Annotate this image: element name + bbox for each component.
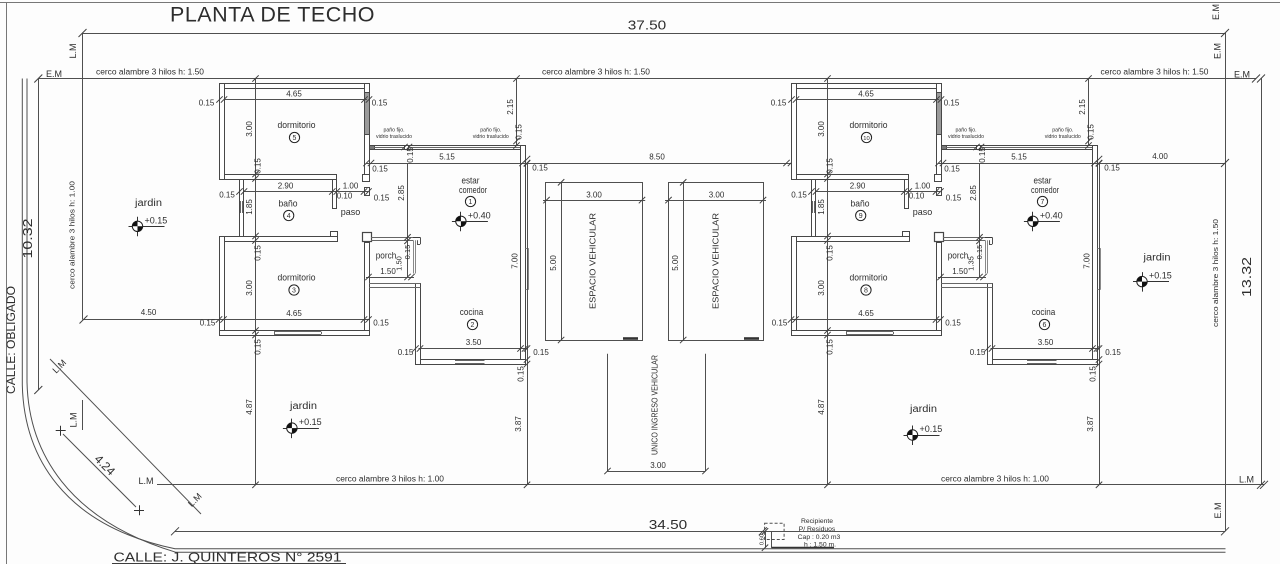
svg-text:4.00: 4.00 [1152, 152, 1168, 161]
svg-text:+0.40: +0.40 [468, 210, 491, 220]
svg-text:3.00: 3.00 [245, 280, 254, 296]
svg-text:cocina: cocina [460, 307, 484, 318]
window dormitorio3 south [274, 331, 321, 333]
svg-text:cerco alambre 3 hilos h: 1.00: cerco alambre 3 hilos h: 1.00 [336, 475, 445, 484]
svg-text:dormitorio: dormitorio [278, 273, 316, 284]
room number 2 cocina [467, 319, 477, 329]
level mark jardin west +0.15 [129, 215, 168, 236]
svg-text:0.15: 0.15 [254, 158, 263, 174]
wall dormitorio top [220, 84, 370, 89]
wall estar east [521, 146, 526, 365]
svg-text:0.15: 0.15 [515, 124, 524, 140]
room number 6 cocina [1039, 319, 1049, 329]
dimension 4.00 east jardin [1099, 163, 1225, 165]
dim 4.65 dormitorio north [224, 99, 367, 101]
svg-text:ESPACIO VEHICULAR: ESPACIO VEHICULAR [588, 213, 598, 309]
stall 2 dimension 3.00 [665, 200, 766, 202]
room number 7 estar comedor [1037, 196, 1047, 206]
svg-text:jardin: jardin [1142, 253, 1170, 264]
svg-text:2.15: 2.15 [506, 99, 515, 115]
svg-text:vidrio traslucido: vidrio traslucido [473, 134, 509, 140]
dimension 34.50 bottom [175, 531, 1225, 533]
svg-text:3.00: 3.00 [650, 461, 666, 470]
top fence line (E.M) [38, 78, 1256, 80]
svg-text:0.10: 0.10 [337, 192, 353, 201]
svg-text:3.00: 3.00 [709, 190, 725, 199]
top border line [0, 2, 1280, 4]
svg-text:L.M: L.M [1239, 475, 1254, 485]
svg-text:2.90: 2.90 [278, 182, 294, 191]
svg-text:0.60: 0.60 [760, 534, 766, 545]
espacio vehicular stall 1 [546, 183, 643, 341]
svg-text:9: 9 [859, 213, 863, 220]
svg-text:L.M: L.M [139, 476, 154, 486]
wall bano south / dormitorio3 north [220, 237, 338, 242]
room number 4 bano [284, 210, 294, 220]
dwelling unit right (translated copy) [771, 75, 1122, 488]
dwelling unit (walls, windows, dimensions) left [199, 75, 550, 488]
svg-text:Recipiente: Recipiente [801, 518, 833, 525]
svg-text:P/ Residuos: P/ Residuos [799, 526, 836, 533]
level mark estar +0.40 [452, 210, 491, 231]
level mark jardin east +0.15 [1133, 271, 1172, 292]
wall dormitorio3 west [220, 237, 225, 336]
SW corner boundary diagonal (ochava) [50, 359, 201, 514]
wall dormitorio west [220, 84, 225, 180]
dim vertical chain west (3.00/0.15/1.85/0.15/3.00/0.15/4.87) [255, 79, 257, 485]
svg-text:+0.15: +0.15 [299, 417, 322, 427]
east fence line (E.M) [1225, 33, 1227, 531]
west fence line (L.M) [82, 33, 84, 320]
svg-text:4: 4 [287, 213, 291, 220]
room number 9 bano [856, 210, 866, 220]
svg-text:cerco alambre 3 hilos h: 1.00: cerco alambre 3 hilos h: 1.00 [941, 475, 1050, 484]
stall 2 wheel stop [744, 337, 759, 340]
svg-text:0.15: 0.15 [403, 245, 412, 260]
svg-text:10.32: 10.32 [21, 218, 35, 258]
svg-text:paño fijo.: paño fijo. [383, 128, 404, 134]
svg-text:37.50: 37.50 [628, 18, 667, 33]
recipiente 0.60 dimension [765, 531, 767, 547]
svg-text:h : 1.50 m.: h : 1.50 m. [804, 542, 836, 549]
wall dormitorio south [225, 175, 337, 180]
window dormitorio east (translucent) [365, 93, 370, 135]
wall notch paso NW [363, 175, 370, 182]
wall cocina south [416, 360, 526, 365]
svg-text:UNICO INGRESO VEHICULAR: UNICO INGRESO VEHICULAR [651, 355, 660, 455]
level mark jardin south-left +0.15 [283, 417, 322, 438]
svg-text:cerco alambre 3 hilos h: 1.50: cerco alambre 3 hilos h: 1.50 [1101, 68, 1210, 77]
svg-text:PLANTA DE TECHO: PLANTA DE TECHO [170, 3, 375, 27]
wall dormitorio3 south [220, 331, 370, 336]
svg-text:5.00: 5.00 [549, 255, 558, 271]
dim 2.90 / 1.00 bano row [244, 191, 369, 193]
svg-text:0.15: 0.15 [254, 245, 263, 261]
svg-text:0.15: 0.15 [219, 191, 235, 200]
svg-text:0.15: 0.15 [533, 348, 549, 357]
wall dormitorio east upper [365, 84, 370, 179]
door jamb paso west [365, 188, 370, 196]
svg-text:3.00: 3.00 [586, 190, 602, 199]
stall 1 dimension 5.00 [561, 182, 563, 340]
unico ingreso dimension 3.00 [608, 471, 706, 473]
svg-text:+0.15: +0.15 [920, 424, 943, 434]
svg-text:L.M: L.M [69, 412, 79, 427]
svg-text:paso: paso [341, 207, 361, 218]
porch south edge [369, 283, 421, 285]
stall 1 wheel stop [623, 337, 638, 340]
svg-text:jardin: jardin [134, 198, 162, 209]
svg-text:jardin: jardin [289, 401, 317, 412]
svg-text:ESPACIO VEHICULAR: ESPACIO VEHICULAR [711, 213, 721, 309]
svg-text:paño fijo.: paño fijo. [480, 128, 501, 134]
room number 8 dormitorio [861, 285, 871, 295]
porch north edge [371, 237, 413, 239]
svg-text:+0.15: +0.15 [1149, 271, 1172, 281]
svg-text:3.87: 3.87 [514, 416, 523, 432]
svg-text:E.M: E.M [1213, 43, 1223, 59]
svg-text:0.15: 0.15 [199, 99, 215, 108]
window estar east [528, 249, 530, 290]
espacio vehicular stall 2 [669, 183, 764, 341]
svg-text:E.M: E.M [46, 69, 62, 79]
svg-text:cerco alambre 3 hilos h: 1.00: cerco alambre 3 hilos h: 1.00 [68, 181, 77, 289]
wall dormitorio3 east [365, 243, 370, 336]
svg-text:4.65: 4.65 [286, 90, 302, 99]
dimension 8.50 central [527, 163, 791, 165]
dim 3.50 cocina [419, 348, 528, 350]
svg-text:0.15: 0.15 [372, 165, 388, 174]
stall 2 dimension 5.00 [683, 182, 685, 340]
svg-text:cerco alambre 3 hilos h: 1.50: cerco alambre 3 hilos h: 1.50 [96, 68, 205, 77]
dim 0.15 window mullion [401, 144, 407, 150]
dimension 10.32 west [38, 79, 40, 391]
svg-text:8.50: 8.50 [649, 153, 665, 162]
svg-text:cerco alambre 3 hilos h: 1.50: cerco alambre 3 hilos h: 1.50 [1211, 219, 1220, 327]
svg-text:vidrio traslucido: vidrio traslucido [376, 134, 412, 140]
dim 2.85 paso east [407, 163, 409, 277]
svg-text:7: 7 [1041, 199, 1045, 206]
dimension 4.50 west jardin [84, 319, 220, 321]
bottom fence line (L.M) [157, 484, 1264, 486]
stall 1 dimension 3.00 [543, 200, 645, 202]
svg-text:0.15: 0.15 [532, 164, 548, 173]
svg-text:5: 5 [293, 135, 297, 142]
svg-text:1.85: 1.85 [245, 199, 254, 215]
wall porch east [413, 240, 415, 273]
svg-text:8: 8 [864, 288, 868, 295]
dim 4.65 dormitorio3 south [219, 319, 369, 321]
svg-text:CALLE: OBLIGADO: CALLE: OBLIGADO [6, 286, 18, 394]
svg-text:E.M: E.M [1213, 502, 1223, 518]
svg-text:1.50: 1.50 [395, 256, 404, 271]
svg-text:1.00: 1.00 [343, 182, 359, 191]
dimension 13.32 east [1261, 79, 1263, 485]
svg-text:4.87: 4.87 [245, 399, 254, 415]
svg-text:dormitorio: dormitorio [278, 120, 316, 131]
porch NE corner post [411, 237, 420, 239]
room number 10 dormitorio [861, 132, 871, 142]
svg-text:1: 1 [469, 199, 473, 206]
svg-text:E.M: E.M [1234, 70, 1250, 80]
svg-text:0.15: 0.15 [398, 348, 414, 357]
wall bano west [240, 180, 244, 237]
window bano west [240, 201, 242, 213]
svg-text:CALLE: J. QUINTEROS N° 2591: CALLE: J. QUINTEROS N° 2591 [114, 551, 342, 565]
svg-text:0.15: 0.15 [254, 339, 263, 355]
svg-text:0.15: 0.15 [517, 366, 526, 382]
svg-text:0.15: 0.15 [374, 194, 390, 203]
unico ingreso vehicular lane lines [607, 354, 609, 471]
svg-text:13.32: 13.32 [1240, 257, 1254, 297]
svg-text:0.15: 0.15 [406, 147, 415, 163]
svg-text:Cap : 0.20 m3: Cap : 0.20 m3 [798, 534, 841, 541]
wall cocina west [416, 284, 421, 365]
level mark jardin south-right +0.15 [904, 424, 943, 445]
svg-text:+0.15: +0.15 [145, 215, 168, 225]
svg-text:6: 6 [1043, 322, 1047, 329]
door jamb dormitorio3 north [331, 232, 338, 237]
window band estar north (pano fijo) [370, 146, 526, 150]
svg-text:baño: baño [279, 199, 298, 210]
recipiente p/ residuos dashed box [765, 523, 785, 539]
svg-text:3.00: 3.00 [245, 121, 254, 137]
dim vertical chain east (7.00/3.87) [527, 163, 529, 485]
svg-text:0.15: 0.15 [200, 319, 216, 328]
dim porch 1.50 horizontal [366, 277, 414, 279]
svg-text:L.M: L.M [68, 43, 78, 58]
svg-text:cerco alambre 3 hilos h: 1.50: cerco alambre 3 hilos h: 1.50 [542, 68, 651, 77]
street east edge double line with corner curve [22, 79, 1225, 549]
svg-text:E.M: E.M [1211, 4, 1221, 20]
svg-text:porch: porch [376, 251, 397, 262]
room number 1 estar comedor [465, 196, 475, 206]
street CALLE OBLIGADO west edge line [6, 3, 8, 565]
svg-text:10: 10 [863, 136, 869, 142]
wall bano east [333, 180, 337, 209]
svg-text:4.50: 4.50 [141, 308, 157, 317]
dimension 37.50 top [83, 33, 1226, 35]
svg-text:2.85: 2.85 [397, 185, 406, 201]
svg-text:jardin: jardin [909, 404, 937, 415]
room number 3 dormitorio [289, 285, 299, 295]
svg-text:5.00: 5.00 [671, 255, 680, 271]
svg-text:3: 3 [292, 288, 296, 295]
svg-text:0.15: 0.15 [372, 99, 388, 108]
svg-text:4.65: 4.65 [286, 309, 302, 318]
dim 5.15 estar north [367, 163, 528, 165]
svg-text:0.15: 0.15 [373, 319, 389, 328]
pillar porch NW [363, 233, 372, 242]
svg-text:comedor: comedor [459, 185, 487, 196]
window cocina south [455, 360, 485, 362]
svg-text:2: 2 [471, 322, 475, 329]
svg-text:34.50: 34.50 [649, 517, 688, 532]
svg-text:7.00: 7.00 [511, 253, 520, 269]
svg-text:5.15: 5.15 [439, 153, 455, 162]
dimension 4.24 ochava diagonal [63, 434, 136, 507]
room number 5 dormitorio [289, 132, 299, 142]
dim 2.15 window band east [516, 79, 518, 146]
svg-text:3.50: 3.50 [466, 338, 482, 347]
